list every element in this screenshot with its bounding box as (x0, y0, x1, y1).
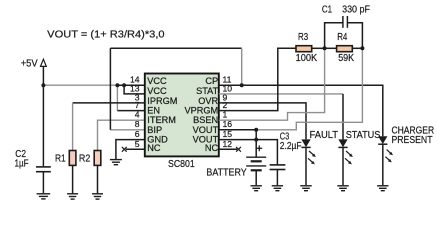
svg-text:STATUS: STATUS (346, 130, 381, 141)
LED fault (301, 139, 315, 185)
svg-text:8: 8 (135, 119, 140, 129)
ground C3 (272, 186, 283, 191)
battery (246, 157, 266, 170)
wire BIP pin 8 stub (110, 129, 144, 131)
wire VOUT pin 16 (219, 129, 256, 131)
wire R2 to ground (97, 165, 99, 193)
resistor R3 (296, 46, 312, 52)
wire top rail drop to CP (241, 48, 243, 85)
svg-text:VCC: VCC (147, 76, 167, 86)
ground charger LED (377, 186, 388, 191)
svg-text:59K: 59K (338, 53, 354, 64)
capacitor C3 (270, 165, 286, 170)
svg-text:5: 5 (135, 139, 140, 149)
junction dot R3/R4 (323, 46, 327, 50)
svg-text:R3: R3 (298, 32, 308, 43)
junction dot pin 13 branch (122, 83, 126, 87)
pin names left (147, 76, 177, 153)
svg-text:100K: 100K (296, 53, 318, 64)
wire STAT drop to status LED (342, 94, 344, 139)
svg-text:R1: R1 (55, 154, 66, 165)
wire R3 right (312, 47, 325, 49)
svg-text:BATTERY: BATTERY (206, 167, 246, 178)
wire NC pin 5 stub (126, 148, 145, 150)
resistor R4 (337, 46, 353, 52)
ground pin 6 (110, 160, 122, 165)
capacitor C2 (36, 167, 51, 172)
svg-text:SC801: SC801 (168, 159, 195, 170)
wire to pin 13 (124, 85, 145, 94)
svg-text:VPRGM: VPRGM (184, 106, 218, 116)
junction dot VOUT 16 (254, 128, 258, 132)
wire BIP riser (109, 48, 111, 130)
wire C3 to ground (276, 170, 278, 186)
svg-text:VCC: VCC (147, 86, 167, 96)
+5V rail wire (42, 66, 44, 166)
ground battery (251, 186, 262, 191)
svg-text:VOUT: VOUT (193, 125, 219, 135)
top rail wire BIP to CP (110, 47, 241, 49)
svg-text:NC: NC (205, 143, 219, 153)
svg-text:330 pF: 330 pF (342, 5, 370, 16)
svg-text:6: 6 (135, 129, 140, 139)
svg-text:FAULT: FAULT (310, 130, 339, 141)
svg-text:NC: NC (147, 143, 161, 153)
svg-text:1µF: 1µF (15, 159, 29, 170)
junction dot VOUT 15 (254, 138, 258, 142)
wire STAT pin 10 (219, 93, 343, 95)
NC cross pin 12 (236, 147, 241, 152)
junction dot CP (240, 83, 244, 87)
NC cross pin 5 (122, 147, 127, 152)
svg-text:R4: R4 (337, 32, 347, 43)
wire VOUT pin 15 to C3 (219, 140, 278, 165)
+5V arrow (41, 59, 47, 66)
battery plus sign (256, 145, 262, 151)
wire EN pin 7 (116, 85, 118, 110)
svg-text:VOUT = (1+ R3/R4)*3,0: VOUT = (1+ R3/R4)*3,0 (47, 30, 165, 41)
junction dot +5V rail (41, 83, 45, 87)
wire battery to ground (255, 170, 257, 185)
wire R4 left (325, 47, 337, 49)
svg-text:ITERM: ITERM (147, 115, 176, 125)
wire CP pin 11 to charger LED (219, 85, 383, 136)
svg-text:BIP: BIP (147, 125, 162, 135)
svg-text:4: 4 (135, 110, 140, 120)
ground fault LED (300, 186, 311, 191)
ground R1 (67, 194, 78, 199)
ground C2 (37, 194, 51, 199)
svg-text:EN: EN (147, 106, 160, 116)
svg-text:2.2µF: 2.2µF (280, 141, 302, 152)
ground status LED (337, 186, 348, 191)
wire ITERM pin 4 to R2 (98, 120, 145, 150)
LED charger present (378, 136, 393, 185)
junction dot R4 right (360, 46, 364, 50)
LED status (338, 139, 352, 185)
wire BSEN pin 1 to R3/R4 junction (219, 48, 325, 120)
wire VPRGM pin 2 to R3 (219, 48, 296, 110)
wire R1 to ground (72, 165, 74, 193)
pin names right (184, 76, 218, 153)
wire IPRGM pin 3 to R1 (73, 102, 145, 104)
resistor R1 (69, 151, 76, 166)
capacitor C1 (325, 23, 343, 49)
op IC U1 SC801 body (145, 74, 219, 157)
pin numbers right (223, 75, 233, 149)
wire R4 right (352, 47, 362, 49)
svg-text:R2: R2 (79, 154, 91, 165)
wire VOUT down to battery (255, 130, 257, 157)
wire GND pin 6 (116, 140, 145, 159)
wire OVR pin 9 to fault LED (219, 103, 306, 139)
junction dot EN branch (115, 83, 119, 87)
svg-text:+5V: +5V (21, 58, 38, 69)
wire VOUT feedback to R4 (256, 48, 362, 130)
svg-text:C1: C1 (322, 5, 332, 16)
wire NC pin 12 stub (219, 148, 237, 150)
pin numbers left (130, 75, 140, 149)
ground R2 (92, 194, 103, 199)
resistor R2 (94, 151, 101, 166)
wire +5V to pin 14 (43, 84, 117, 86)
svg-text:CP: CP (205, 76, 218, 86)
svg-text:PRESENT: PRESENT (392, 135, 433, 146)
svg-text:STAT: STAT (196, 86, 219, 96)
svg-text:BSEN: BSEN (193, 115, 218, 125)
